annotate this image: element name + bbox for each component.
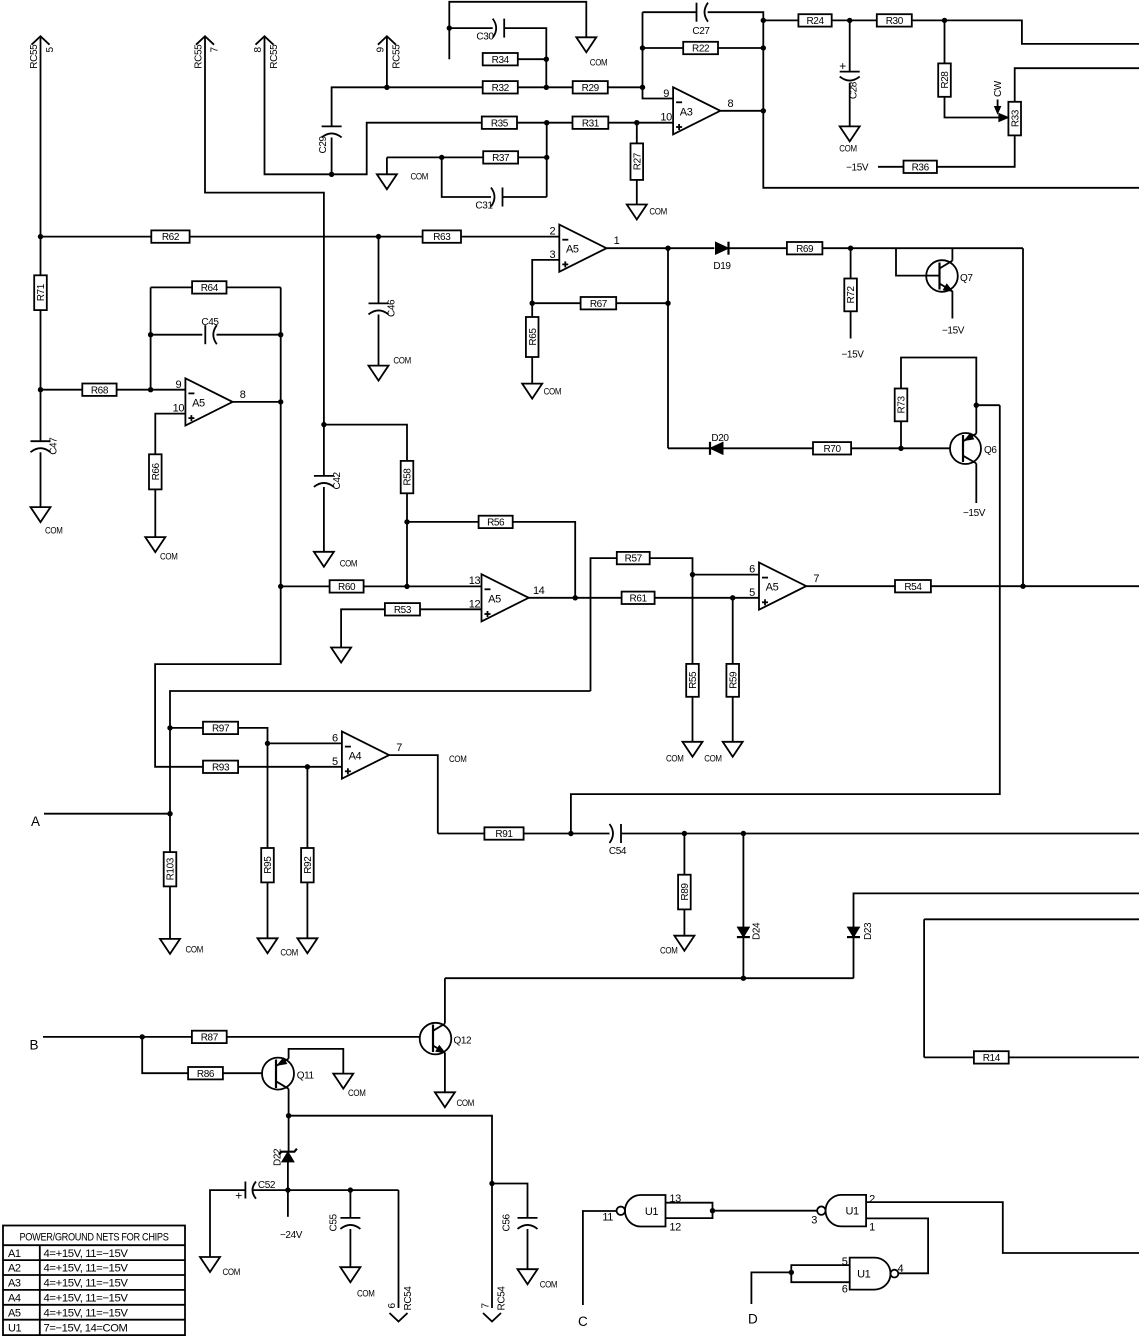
- wire R92 bottom: [306, 882, 308, 938]
- junction C46 top: [376, 234, 381, 239]
- svg-text:4: 4: [898, 1263, 904, 1275]
- wire Q12 emitter down: [444, 1053, 446, 1093]
- svg-text:R68: R68: [91, 385, 109, 396]
- svg-text:COM: COM: [160, 552, 178, 563]
- resistor R65: [526, 317, 539, 357]
- svg-text:R60: R60: [338, 582, 356, 593]
- wire box left edge: [923, 919, 925, 1057]
- NAND gate U1 (4,5,6): [850, 1258, 899, 1290]
- wire Q12 collector up: [444, 978, 446, 1023]
- wire C55 top lead: [349, 1190, 351, 1218]
- svg-text:8: 8: [240, 389, 246, 401]
- wire R30 stair to edge: [912, 20, 1139, 44]
- svg-text:A: A: [31, 814, 40, 829]
- svg-text:2: 2: [869, 1193, 875, 1205]
- op-amp A5 pins 9/10/8: [173, 378, 246, 425]
- resistor R35: [482, 117, 517, 130]
- svg-text:C42: C42: [332, 471, 343, 489]
- wire node to R29: [546, 86, 572, 88]
- svg-text:Q12: Q12: [454, 1036, 473, 1047]
- svg-text:R30: R30: [886, 16, 904, 27]
- connector RC54 pin 7: [481, 1286, 508, 1322]
- junction RC55-5/R71: [38, 234, 43, 239]
- wire RC54-6 drop: [398, 1190, 400, 1308]
- junction C28 top: [847, 18, 852, 23]
- svg-text:A5: A5: [766, 582, 779, 594]
- ground COM under R55: [666, 742, 703, 765]
- wire R31 to pin 10: [608, 122, 673, 124]
- resistor R34: [483, 53, 518, 66]
- ground COM under C47: [31, 507, 63, 536]
- resistor R67: [581, 297, 617, 310]
- wire R103 bottom: [169, 886, 171, 939]
- svg-text:R32: R32: [492, 83, 510, 94]
- wire A5 out net down-left: [155, 402, 281, 767]
- ground COM under R103: [160, 939, 203, 956]
- junction R68 left: [38, 387, 43, 392]
- svg-text:U1: U1: [845, 1206, 859, 1218]
- resistor R71: [34, 275, 47, 310]
- wire R35 to node: [517, 122, 547, 124]
- ground COM under C52: [200, 1257, 240, 1278]
- wire into pin 9: [643, 87, 674, 98]
- resistor R89: [678, 875, 691, 910]
- ground under R53: [331, 648, 351, 663]
- wire D20 to R70: [723, 447, 813, 449]
- ground COM at Q11: [333, 1074, 366, 1099]
- wire C27 right lead: [708, 12, 1139, 188]
- svg-text:C47: C47: [49, 437, 60, 455]
- svg-text:−15V: −15V: [846, 163, 869, 174]
- wire D24 bottom lead: [742, 938, 744, 979]
- junction A5 out 8: [278, 399, 283, 404]
- capacitor C45: [201, 317, 219, 344]
- resistor R32: [483, 81, 518, 94]
- wire C30 right lead: [504, 28, 546, 87]
- junction R35/R31 node: [544, 120, 549, 125]
- wire pin 6 line: [693, 574, 760, 576]
- wire Q7 base tap: [896, 248, 927, 275]
- wire C46 bottom lead: [378, 315, 380, 366]
- ground COM under C55: [340, 1267, 375, 1299]
- junction C31 left leg: [439, 155, 444, 160]
- capacitor C28: [840, 72, 860, 100]
- svg-text:R53: R53: [394, 605, 412, 616]
- wire R69 to Q7 node: [822, 247, 1023, 249]
- wire C28 top lead: [849, 20, 851, 71]
- wire pin 11 to port C: [583, 1211, 617, 1305]
- wire D23 branch: [854, 893, 1139, 978]
- junction port A: [167, 811, 172, 816]
- diode D20: [710, 442, 723, 455]
- svg-text:A3: A3: [8, 1278, 21, 1290]
- wire R95 top lead: [267, 743, 269, 848]
- junction out 1 node: [665, 246, 670, 251]
- svg-text:A3: A3: [680, 106, 693, 118]
- svg-text:R37: R37: [492, 153, 510, 164]
- junction R58 top loop: [321, 422, 326, 427]
- junction R32/R29 node: [544, 85, 549, 90]
- wire R58 bottom: [406, 493, 408, 586]
- wire A4 pin 6 line: [268, 742, 342, 744]
- svg-text:−15V: −15V: [942, 326, 965, 337]
- svg-text:R35: R35: [491, 118, 509, 129]
- diode D19: [716, 242, 729, 255]
- wire R64 right lead: [227, 286, 281, 288]
- junction R34 right: [544, 57, 549, 62]
- svg-text:C27: C27: [692, 26, 710, 37]
- junction R28 top: [942, 18, 947, 23]
- wire R56 left lead: [407, 521, 479, 523]
- ground COM under R66: [145, 537, 178, 562]
- wire R55 top lead: [692, 575, 694, 664]
- wire long link to A4: [170, 691, 591, 852]
- wire node to R31: [547, 122, 573, 124]
- svg-text:COM: COM: [666, 754, 684, 765]
- svg-text:R58: R58: [403, 468, 414, 486]
- wire C45 right lead: [217, 334, 281, 336]
- capacitor C27: [692, 3, 710, 37]
- svg-text:COM: COM: [348, 1088, 366, 1099]
- svg-text:C: C: [578, 1314, 588, 1329]
- svg-text:D23: D23: [863, 922, 874, 940]
- wire R37 input line: [387, 156, 483, 158]
- junction R56 left: [404, 519, 409, 524]
- resistor R28: [938, 63, 951, 96]
- svg-text:5: 5: [842, 1256, 848, 1268]
- transistor Q7: [926, 260, 973, 292]
- wire feedback left vertical: [642, 12, 644, 87]
- wire R33 bottom to R36: [937, 135, 1015, 166]
- ground COM under R95: [258, 938, 299, 958]
- svg-text:A5: A5: [488, 593, 501, 605]
- resistor R93: [203, 761, 238, 774]
- wire R28 top lead: [944, 20, 946, 63]
- svg-text:5: 5: [332, 756, 338, 768]
- junction D24 top: [741, 831, 746, 836]
- wire R63 to A5 pin 2: [461, 236, 559, 238]
- svg-text:COM: COM: [186, 945, 204, 956]
- wire -24V stub: [287, 1190, 289, 1217]
- svg-text:R24: R24: [806, 16, 824, 27]
- svg-text:12: 12: [669, 1221, 681, 1233]
- wire A4 out to R91: [438, 833, 485, 835]
- resistor R64: [192, 281, 226, 294]
- junction pin 6 node: [690, 572, 695, 577]
- svg-text:D24: D24: [752, 922, 763, 940]
- wire R24 to R30: [832, 19, 877, 21]
- svg-text:R28: R28: [940, 71, 951, 89]
- svg-text:7: 7: [210, 47, 221, 53]
- wire box top edge: [924, 918, 1139, 920]
- NAND gate U1 (1,2,3): [817, 1195, 866, 1227]
- op-amp A5 pins 2/3/1: [549, 225, 619, 272]
- wire R35-R37 node vertical: [546, 123, 548, 197]
- wire R71 top lead: [40, 237, 42, 276]
- svg-text:COM: COM: [540, 1280, 558, 1291]
- svg-text:3: 3: [811, 1214, 817, 1226]
- wire top loop to COM: [449, 2, 586, 59]
- svg-text:A5: A5: [192, 397, 205, 409]
- junction R73 bottom: [898, 446, 903, 451]
- svg-text:COM: COM: [280, 948, 298, 959]
- ground COM under R65: [522, 384, 561, 399]
- capacitor C30: [476, 19, 504, 43]
- wire loop right vertical: [280, 287, 282, 402]
- svg-text:R14: R14: [983, 1053, 1001, 1064]
- svg-text:R70: R70: [823, 444, 841, 455]
- svg-text:R33: R33: [1010, 109, 1021, 127]
- svg-text:R57: R57: [625, 554, 643, 565]
- wire C45 left lead: [151, 334, 203, 336]
- junction C29 on RC55-8 line: [329, 172, 334, 177]
- wire R86 branch: [142, 1037, 188, 1073]
- resistor R69: [787, 242, 823, 255]
- svg-text:D20: D20: [711, 433, 729, 444]
- junction pin 6 A4: [265, 741, 270, 746]
- junction C45 right: [278, 332, 283, 337]
- junction R92 top: [305, 764, 310, 769]
- svg-text:R61: R61: [630, 593, 648, 604]
- wire R28 to wiper: [945, 97, 1000, 118]
- ground COM under C42: [314, 552, 358, 570]
- wire R67 line: [532, 302, 580, 304]
- wire R68 to pin 9: [117, 389, 186, 391]
- wire R57 right route: [650, 558, 693, 575]
- junction feedback right top: [761, 18, 766, 23]
- wire port D route: [751, 1272, 791, 1304]
- svg-text:10: 10: [660, 112, 672, 124]
- wire A3 output: [720, 110, 763, 112]
- wire R66 bottom: [154, 489, 156, 537]
- svg-text:COM: COM: [457, 1098, 475, 1109]
- svg-text:R65: R65: [528, 328, 539, 346]
- svg-text:POWER/GROUND NETS FOR CHIPS: POWER/GROUND NETS FOR CHIPS: [20, 1231, 169, 1243]
- wire R61 to pin 5: [655, 597, 759, 599]
- wire R32 to node: [518, 86, 547, 88]
- svg-text:R95: R95: [263, 856, 274, 874]
- wire C55 bottom: [349, 1229, 351, 1267]
- wire Q7 collector net down: [1022, 248, 1024, 586]
- wire C56 branch: [492, 1184, 528, 1218]
- wire R37 to node: [518, 156, 547, 158]
- svg-text:R55: R55: [688, 671, 699, 689]
- wire pin 1 to gate C out: [866, 1218, 928, 1273]
- wire gate A to gate B: [713, 1210, 819, 1212]
- wire C47 bottom lead: [40, 452, 42, 507]
- junction A3 inverting node: [640, 85, 645, 90]
- svg-text:6: 6: [842, 1284, 848, 1296]
- svg-text:COM: COM: [411, 172, 429, 183]
- svg-text:COM: COM: [340, 559, 358, 570]
- svg-text:COM: COM: [649, 207, 667, 218]
- ground COM at R37 input: [377, 172, 429, 190]
- ground under R92: [297, 938, 317, 953]
- junction Q6 net on R91 line: [568, 831, 573, 836]
- svg-text:C31: C31: [475, 201, 493, 212]
- svg-text:A4: A4: [8, 1293, 21, 1305]
- capacitor C29: [318, 126, 342, 153]
- wire port B line: [43, 1036, 192, 1038]
- op-amp A4 pins 6/5/7: [332, 732, 402, 779]
- junction R86 branch: [140, 1034, 145, 1039]
- NAND gate U1 (11,12,13): [617, 1195, 666, 1227]
- svg-text:8: 8: [727, 98, 733, 110]
- wire C42 bottom lead: [323, 487, 325, 552]
- op-amp A5 pins 13/12/14: [469, 574, 545, 621]
- ground COM under R27: [627, 205, 668, 220]
- junction Q11 collector node: [286, 1113, 291, 1118]
- svg-text:C55: C55: [328, 1213, 339, 1231]
- resistor R37: [483, 151, 518, 164]
- junction R59 top: [730, 595, 735, 600]
- wire R64 line: [151, 286, 193, 288]
- svg-text:COM: COM: [393, 356, 411, 367]
- svg-text:R66: R66: [151, 462, 162, 480]
- svg-text:R63: R63: [433, 232, 451, 243]
- resistor R62: [151, 230, 189, 243]
- wire R27 top lead: [636, 123, 638, 144]
- junction C45 left: [148, 332, 153, 337]
- svg-text:C45: C45: [201, 317, 219, 328]
- wire R97 line: [170, 727, 203, 729]
- svg-text:RC55: RC55: [29, 44, 40, 69]
- wire gate A tie top: [666, 1203, 713, 1218]
- wire -15V to R36: [878, 166, 904, 168]
- ground COM top loop: [576, 37, 607, 68]
- svg-text:4=+15V, 11=−15V: 4=+15V, 11=−15V: [44, 1278, 129, 1290]
- ground COM under C56: [518, 1269, 558, 1290]
- svg-text:12: 12: [469, 599, 481, 611]
- resistor R60: [330, 580, 364, 593]
- junction R22 right: [761, 45, 766, 50]
- capacitor C55: [328, 1213, 360, 1231]
- wire R89 bottom: [683, 909, 685, 935]
- svg-text:R89: R89: [680, 883, 691, 901]
- svg-text:COM: COM: [704, 754, 722, 765]
- wire R55 bottom: [692, 697, 694, 742]
- capacitor C47: [31, 437, 60, 455]
- junction R72 top: [848, 246, 853, 251]
- svg-text:R29: R29: [582, 83, 600, 94]
- resistor R22: [683, 42, 718, 55]
- svg-text:1: 1: [869, 1222, 875, 1234]
- svg-text:COM: COM: [357, 1289, 375, 1300]
- svg-text:RC55: RC55: [269, 44, 280, 69]
- svg-text:C46: C46: [387, 299, 398, 317]
- wire R34 right lead: [518, 58, 547, 60]
- junction A5 out 14: [573, 595, 578, 600]
- svg-text:R103: R103: [166, 857, 177, 880]
- resistor R91: [484, 827, 523, 840]
- svg-text:6: 6: [332, 732, 338, 744]
- resistor R27: [631, 143, 644, 180]
- wiper arrow of R33: [999, 114, 1009, 122]
- wire C28 bottom lead: [849, 83, 851, 127]
- op-amp A3 pins 9/10/8: [660, 87, 733, 134]
- svg-text:2: 2: [549, 226, 555, 238]
- wire R60 to pin 13: [364, 585, 482, 587]
- resistor R30: [877, 14, 912, 27]
- wire R67 right lead: [616, 302, 668, 304]
- svg-text:COM: COM: [544, 387, 562, 398]
- svg-text:D: D: [748, 1312, 758, 1327]
- svg-text:R54: R54: [904, 582, 922, 593]
- wire A4 output: [389, 755, 438, 833]
- wire RC55-5 to R62 line: [40, 36, 42, 236]
- junction R27 top: [634, 120, 639, 125]
- connector RC55 pin 8: [253, 36, 280, 68]
- resistor R72: [844, 279, 857, 312]
- svg-text:B: B: [30, 1038, 39, 1053]
- wire A5 out 14: [528, 597, 622, 599]
- svg-text:−24V: −24V: [280, 1230, 303, 1241]
- svg-text:−15V: −15V: [841, 350, 864, 361]
- svg-text:7: 7: [481, 1303, 492, 1309]
- svg-text:RC55: RC55: [194, 44, 205, 69]
- wire out node vertical: [667, 248, 669, 448]
- wire Q6 net link: [571, 405, 1000, 833]
- svg-text:R93: R93: [212, 762, 230, 773]
- capacitor C46: [369, 299, 398, 317]
- wire C52 line right: [254, 1189, 399, 1191]
- junction R22 left: [640, 45, 645, 50]
- wire R86 to Q11 base: [223, 1072, 276, 1074]
- wire R54 to right edge: [931, 585, 1139, 587]
- wire R14 left lead: [924, 1056, 974, 1058]
- wire port A line: [44, 813, 170, 815]
- resistor R36: [904, 161, 937, 174]
- svg-text:A5: A5: [566, 244, 579, 256]
- diode D23: [847, 927, 860, 937]
- svg-text:14: 14: [533, 585, 545, 597]
- wire D22 bottom lead: [287, 1162, 289, 1190]
- wire RC55-7 route: [205, 36, 324, 476]
- ground COM under R59: [704, 742, 743, 765]
- wire bottom rail: [445, 977, 854, 979]
- wire D19 to R69: [729, 247, 787, 249]
- wire C29 bottom: [331, 138, 333, 175]
- wire Q11 collector down: [288, 1089, 290, 1152]
- wire R59 top lead: [732, 598, 734, 664]
- svg-text:9: 9: [663, 88, 669, 100]
- svg-text:Q11: Q11: [297, 1071, 315, 1082]
- resistor R54: [895, 580, 931, 593]
- capacitor C52: [235, 1180, 276, 1203]
- wire R72 bottom lead: [850, 311, 852, 338]
- wire RC55-8 route: [265, 36, 482, 174]
- junction C56 branch: [489, 1181, 494, 1186]
- svg-text:A5: A5: [8, 1307, 21, 1319]
- wire R97 to pin 6: [238, 728, 267, 744]
- junction D24 bottom: [741, 976, 746, 981]
- svg-text:Q6: Q6: [984, 445, 997, 456]
- wire C30 left lead: [449, 27, 492, 29]
- connector RC55 pin 7: [194, 36, 221, 68]
- resistor R53: [385, 603, 420, 616]
- resistor R86: [188, 1067, 223, 1080]
- svg-text:R71: R71: [36, 283, 47, 301]
- resistor R31: [573, 117, 609, 130]
- wire R53 left route: [341, 609, 385, 647]
- junction R97 left: [167, 725, 172, 730]
- ground COM under C28: [839, 126, 859, 154]
- svg-text:7: 7: [813, 573, 819, 585]
- wire R93 to pin 5: [238, 766, 342, 768]
- wire loop left vertical: [150, 287, 152, 389]
- svg-text:A2: A2: [8, 1263, 21, 1275]
- svg-text:9: 9: [176, 379, 182, 391]
